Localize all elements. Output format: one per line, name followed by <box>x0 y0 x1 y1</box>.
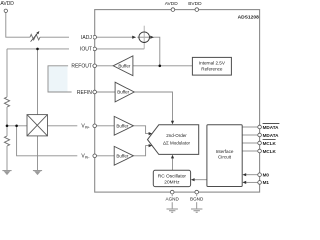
svg-text:MCLK: MCLK <box>263 149 277 154</box>
svg-text:Interface: Interface <box>216 149 234 154</box>
svg-text:Buffer: Buffer <box>116 153 128 158</box>
svg-text:Circuit: Circuit <box>218 155 232 160</box>
svg-text:REFOUT: REFOUT <box>71 64 92 70</box>
svg-text:MCLK: MCLK <box>263 141 277 146</box>
svg-text:Reference: Reference <box>201 67 223 72</box>
svg-text:REFIN: REFIN <box>77 90 92 96</box>
svg-text:RC Oscillator: RC Oscillator <box>158 174 187 180</box>
svg-text:ΔΣ Modulator: ΔΣ Modulator <box>163 141 191 146</box>
svg-text:IADJ: IADJ <box>81 35 92 41</box>
svg-text:AVDD: AVDD <box>165 1 179 7</box>
svg-text:BGND: BGND <box>190 196 204 201</box>
svg-text:Buffer: Buffer <box>117 90 129 95</box>
svg-text:AVDD: AVDD <box>0 1 14 7</box>
svg-text:MDATA: MDATA <box>263 133 280 138</box>
svg-text:20MHz: 20MHz <box>164 180 180 186</box>
svg-text:ADS1208: ADS1208 <box>238 15 259 21</box>
svg-text:AGND: AGND <box>166 196 180 201</box>
svg-text:IOUT: IOUT <box>80 47 92 53</box>
svg-text:M0: M0 <box>263 172 270 177</box>
svg-text:BVDD: BVDD <box>188 1 202 7</box>
svg-text:M1: M1 <box>263 180 270 185</box>
svg-text:2nd-Order: 2nd-Order <box>166 133 187 138</box>
svg-text:Buffer: Buffer <box>118 63 130 68</box>
svg-text:Internal 2.5V: Internal 2.5V <box>199 61 226 66</box>
svg-text:Buffer: Buffer <box>116 123 128 128</box>
svg-text:MDATA: MDATA <box>263 125 280 130</box>
